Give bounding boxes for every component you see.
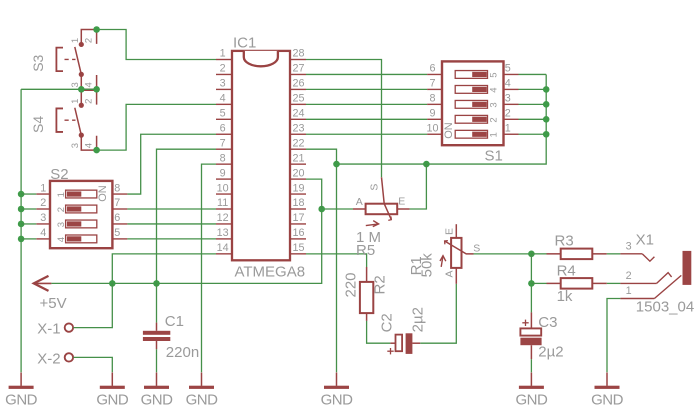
svg-text:1: 1 (40, 182, 46, 194)
S1 pin 8 stub (427, 103, 442, 105)
S2 slider 4 outline (66, 235, 97, 243)
svg-text:2: 2 (626, 270, 632, 282)
capacitor C1 (143, 283, 170, 372)
switch S3 actuator bracket (56, 48, 63, 72)
junction R4 branch (528, 280, 535, 287)
wire left rail to S2 pin 4 (21, 238, 36, 240)
svg-text:GND: GND (141, 392, 174, 409)
svg-text:1: 1 (626, 285, 632, 297)
svg-text:2µ2: 2µ2 (538, 343, 563, 360)
svg-text:ON: ON (97, 185, 109, 202)
svg-text:8: 8 (429, 93, 435, 105)
IC1 pin 11 stub (216, 208, 232, 210)
IC1 pin 1 stub (216, 59, 232, 61)
svg-text:8: 8 (220, 152, 226, 164)
svg-text:S: S (473, 242, 480, 254)
svg-text:R4: R4 (557, 263, 576, 280)
switch S4 actuator bracket (56, 108, 63, 132)
svg-text:220n: 220n (166, 344, 199, 361)
svg-text:21: 21 (292, 152, 304, 164)
svg-text:1: 1 (56, 192, 67, 197)
svg-text:10: 10 (217, 182, 229, 194)
junction GND line at pin22 rail (333, 161, 340, 168)
svg-text:3: 3 (505, 93, 511, 105)
svg-text:2: 2 (220, 63, 226, 75)
IC1 pin 2 stub (216, 73, 232, 75)
svg-text:28: 28 (292, 48, 304, 60)
svg-text:4: 4 (56, 237, 67, 242)
S1 slider 3 filled half (472, 102, 487, 107)
S1 pin 3 stub (504, 103, 519, 105)
IC1 ATMEGA8 body (232, 51, 290, 260)
svg-text:2µ2: 2µ2 (410, 307, 427, 332)
svg-text:22: 22 (292, 137, 304, 149)
junction S1 rail pin 4 (543, 86, 550, 93)
S2 pin 4 stub (36, 238, 50, 240)
svg-text:16: 16 (292, 227, 304, 239)
svg-text:GND: GND (591, 392, 624, 409)
S1 pin 5 stub (504, 73, 519, 75)
switch S4 actuator dashed link (65, 119, 76, 121)
wire X-1 to +5V rail (73, 283, 112, 327)
svg-text:GND: GND (5, 392, 38, 409)
svg-text:19: 19 (292, 182, 304, 194)
svg-text:E: E (443, 228, 455, 235)
svg-text:7: 7 (429, 78, 435, 90)
IC1 pin 4 stub (216, 103, 232, 105)
svg-text:2: 2 (489, 117, 500, 122)
svg-text:S1: S1 (485, 147, 503, 164)
svg-text:S: S (369, 184, 381, 191)
IC1 pin 3 stub (216, 88, 232, 90)
wire S2 pin5 to IC1 pin13 (127, 238, 216, 240)
ground symbol 1 (left rail) (9, 373, 34, 389)
ground symbol 4 (IC1 pin8) (189, 373, 214, 389)
S1 slider 1 filled half (472, 132, 487, 137)
svg-text:4: 4 (83, 82, 94, 87)
junction left rail S2 pin 1 (18, 191, 25, 198)
switch S4 pin3/4 bracket box (81, 136, 96, 150)
svg-text:3: 3 (40, 212, 46, 224)
svg-text:GND: GND (321, 392, 354, 409)
junction +5V rail X-1 (109, 280, 116, 287)
IC1 pin 12 stub (216, 223, 232, 225)
svg-text:23: 23 (292, 122, 304, 134)
S2 pin 1 stub (36, 193, 50, 195)
S1 pin 9 stub (427, 118, 442, 120)
IC1 pin 22 stub (290, 148, 306, 150)
S2 slider 3 filled half (67, 221, 81, 226)
S1 slider 5 filled half (472, 72, 487, 77)
IC1 pin 15 stub (290, 253, 306, 255)
svg-text:17: 17 (292, 212, 304, 224)
S2 pin 2 stub (36, 208, 50, 210)
switch S3 pin 3 contact dot (79, 72, 84, 77)
junction S1 rail pin 2 (543, 116, 550, 123)
wire node down to C3 (530, 254, 532, 313)
svg-text:X1: X1 (636, 231, 654, 248)
switch S3 pin 1 contact dot (79, 42, 84, 47)
svg-text:15: 15 (292, 242, 304, 254)
S1 slider 3 outline (455, 100, 487, 108)
wire IC1 pin28 to R5 wiper (306, 60, 382, 178)
switch S4 lever (75, 108, 82, 135)
svg-text:S2: S2 (50, 166, 68, 183)
svg-text:ATMEGA8: ATMEGA8 (235, 263, 306, 280)
wire C2 to R1 A (420, 284, 456, 343)
svg-text:5: 5 (220, 108, 226, 120)
S2 slider 4 filled half (67, 236, 81, 241)
trimmer R1 body (445, 224, 474, 284)
wire +5V rail (51, 209, 353, 283)
connector X-1 pad (65, 323, 73, 331)
svg-text:C2: C2 (378, 313, 395, 332)
svg-text:4: 4 (220, 93, 226, 105)
R5 adjust arrow (366, 221, 379, 227)
S1 pin 2 stub (504, 118, 519, 120)
connector X-2 pad (65, 353, 73, 361)
svg-text:+5V: +5V (40, 295, 67, 312)
switch S3 pin3/4 bracket box (81, 75, 96, 89)
svg-text:2: 2 (40, 197, 46, 209)
IC1 pin 7 stub (216, 148, 232, 150)
junction S1 rail pin 1 (543, 131, 550, 138)
wire IC1 pin 24 to S1 pin 9 (306, 118, 427, 120)
IC1 pin 20 stub (290, 178, 306, 180)
wire IC1 pin 27 to S1 pin 6 (306, 73, 427, 75)
S1 pin 6 stub (427, 73, 442, 75)
S2 slider 3 outline (66, 220, 97, 228)
S1 pin 10 stub (427, 133, 442, 135)
ground symbol 2 (X-2) (100, 373, 125, 389)
svg-text:IC1: IC1 (233, 35, 256, 52)
svg-text:C3: C3 (538, 314, 557, 331)
svg-text:2: 2 (83, 99, 94, 104)
IC1 pin 23 stub (290, 133, 306, 135)
wire IC1 pin 25 to S1 pin 8 (306, 103, 427, 105)
wire IC1 pin 26 to S1 pin 7 (306, 88, 427, 90)
wire IC1 pin15 to R2 top (306, 254, 367, 267)
IC1 pin 19 stub (290, 193, 306, 195)
ground symbol 6 (C3) (519, 373, 544, 389)
capacitor C2 (390, 333, 420, 354)
junction S1 rail pin 3 (543, 101, 550, 108)
svg-text:4: 4 (505, 78, 511, 90)
S1 pin 4 stub (504, 88, 519, 90)
R1 adjust arrow (440, 256, 446, 267)
svg-text:5: 5 (489, 72, 500, 77)
junction R1 S R3 (528, 251, 535, 258)
switch S4 pin1/2 bracket box (81, 90, 96, 104)
svg-text:1: 1 (70, 99, 81, 104)
svg-text:3: 3 (56, 222, 67, 227)
junction GND line at R5 E branch (423, 161, 430, 168)
wire IC1 pin7 VCC down to +5V rail (157, 149, 217, 283)
trimmer R5 body (353, 177, 410, 220)
IC1 pin 17 stub (290, 223, 306, 225)
svg-text:10: 10 (426, 122, 438, 134)
wire S2 pin7 to IC1 pin11 (127, 208, 216, 210)
svg-text:11: 11 (217, 197, 228, 209)
IC1 pin 28 stub (290, 59, 306, 61)
wire S2 pin8 to IC1 pin6 (127, 134, 216, 194)
S2 slider 1 filled half (67, 191, 81, 196)
svg-text:24: 24 (292, 108, 304, 120)
wire IC1 pin8 down to ground symbol 4 (202, 164, 217, 372)
svg-text:X-1: X-1 (37, 321, 60, 338)
wire X1 pin1 to ground symbol 7 (607, 299, 620, 373)
S1 slider 4 filled half (472, 87, 487, 92)
wire S4 pin4 to IC1 pin4 (97, 104, 216, 150)
svg-text:R3: R3 (555, 233, 574, 250)
S2 pin 8 stub (112, 193, 127, 195)
svg-text:1503_04: 1503_04 (636, 298, 694, 315)
switch S3 pin1/2 bracket box (81, 30, 96, 44)
wire left ground rail (20, 89, 22, 372)
wire S1 pin 4 to right rail (519, 88, 547, 90)
IC1 pin 8 stub (216, 163, 232, 165)
wire IC1 pin 23 to S1 pin 10 (306, 133, 427, 135)
svg-text:14: 14 (217, 242, 229, 254)
svg-text:4: 4 (40, 227, 46, 239)
svg-text:7: 7 (114, 197, 120, 209)
S1 pin 7 stub (427, 88, 442, 90)
svg-text:7: 7 (220, 137, 226, 149)
svg-text:S4: S4 (30, 116, 46, 133)
svg-text:GND: GND (515, 392, 548, 409)
switch S3 actuator dashed link (65, 58, 76, 60)
wire left rail to S2 pin 1 (21, 193, 36, 195)
ground symbol 3 (C1) (144, 373, 169, 389)
S2 slider 2 filled half (67, 206, 81, 211)
svg-text:ON: ON (443, 122, 455, 139)
svg-text:20: 20 (292, 167, 304, 179)
resistor R2 body (360, 267, 373, 321)
IC1 pin 9 stub (216, 178, 232, 180)
wire S1 pin 2 to right rail (519, 118, 547, 120)
C2 plus sign (387, 348, 393, 354)
wire S3 pin2 to IC1 pin1 (97, 30, 216, 60)
svg-text:4: 4 (83, 143, 94, 148)
svg-text:3: 3 (489, 102, 500, 107)
wire X-2 to ground symbol 2 (73, 357, 112, 372)
resistor R3 body (531, 249, 620, 260)
svg-text:4: 4 (489, 87, 500, 92)
wire S1 right ground rail (337, 74, 547, 164)
wire IC1 pin14 to +5V rail (112, 254, 216, 284)
IC1 pin 5 stub (216, 118, 232, 120)
IC1 pin 6 stub (216, 133, 232, 135)
svg-text:3: 3 (70, 143, 81, 148)
S1 slider 4 outline (455, 86, 487, 94)
IC1 pin 13 stub (216, 238, 232, 240)
junction +5V rail R5 A (318, 206, 325, 213)
connector X1 sleeve bar (683, 251, 692, 285)
svg-text:13: 13 (217, 227, 229, 239)
svg-text:X-2: X-2 (37, 350, 60, 367)
S1 pin 1 stub (504, 133, 519, 135)
svg-text:50k: 50k (419, 253, 436, 278)
svg-text:1: 1 (220, 48, 226, 60)
C3 plus sign (522, 320, 528, 326)
switch S3 lever (75, 47, 82, 74)
svg-text:3: 3 (220, 78, 226, 90)
switch S4 pin 3 contact dot (79, 133, 84, 138)
IC1 pin 25 stub (290, 103, 306, 105)
junction left rail S2 pin 3 (18, 221, 25, 228)
wire S1 pin 5 to right rail (519, 73, 547, 75)
wire R2 bottom to C2 (367, 321, 391, 343)
svg-text:1: 1 (489, 132, 500, 137)
IC1 pin 27 stub (290, 73, 306, 75)
S1 slider 1 outline (455, 130, 487, 138)
S2 pin 6 stub (112, 223, 127, 225)
junction +5V rail C1 (153, 280, 160, 287)
+5V supply arrow (34, 276, 49, 291)
svg-text:1: 1 (505, 122, 511, 134)
wire S1 pin 1 to right rail (519, 133, 547, 135)
svg-text:A: A (443, 270, 455, 277)
S2 pin 5 stub (112, 238, 127, 240)
IC1 pin 21 stub (290, 163, 306, 165)
wire GND rail to S3 pins3/4 (21, 88, 97, 90)
svg-text:220: 220 (343, 272, 360, 297)
IC1 pin 16 stub (290, 238, 306, 240)
S1 slider 2 filled half (472, 117, 487, 122)
svg-text:6: 6 (220, 122, 226, 134)
svg-text:1: 1 (70, 38, 81, 43)
IC1 pin 24 stub (290, 118, 306, 120)
svg-text:2: 2 (56, 207, 67, 212)
wire IC1 pin22 to ground symbol 5 (306, 149, 337, 372)
junction at S3 pin3 (78, 86, 85, 93)
IC1 pin 18 stub (290, 208, 306, 210)
svg-text:5: 5 (114, 227, 120, 239)
svg-text:2: 2 (83, 38, 94, 43)
svg-text:9: 9 (220, 167, 226, 179)
svg-text:GND: GND (186, 392, 219, 409)
svg-text:A: A (356, 196, 363, 208)
junction left rail S2 pin 4 (18, 236, 25, 243)
wire IC1 pin20 to +5V junction (306, 179, 322, 209)
wire left rail to S2 pin 3 (21, 223, 36, 225)
svg-text:25: 25 (292, 93, 304, 105)
svg-text:9: 9 (429, 108, 435, 120)
svg-text:6: 6 (429, 63, 435, 75)
IC1 pin 14 stub (216, 253, 232, 255)
S2 slider 1 outline (66, 190, 97, 198)
S2 slider 2 outline (66, 205, 97, 213)
svg-text:12: 12 (217, 212, 229, 224)
wire left rail to S2 pin 2 (21, 208, 36, 210)
S2 pin 3 stub (36, 223, 50, 225)
S1 slider 5 outline (455, 71, 487, 79)
X1 pin 3 contact (620, 254, 654, 261)
wire R1 S to R3/R4 node (474, 253, 532, 255)
junction at S4 pin4 (93, 147, 100, 154)
svg-text:26: 26 (292, 78, 304, 90)
X1 pin 2 contact (620, 273, 671, 284)
svg-text:R5: R5 (356, 242, 375, 259)
S1 slider 2 outline (455, 115, 487, 123)
svg-text:8: 8 (114, 182, 120, 194)
wire S1 pin 3 to right rail (519, 103, 547, 105)
capacitor C3 (520, 312, 541, 372)
IC1 pin 10 stub (216, 193, 232, 195)
junction at S3 pin4 (93, 86, 100, 93)
switch S4 pin 1 contact dot (79, 103, 84, 108)
IC1 pin 26 stub (290, 88, 306, 90)
S2 DIP switch body (50, 181, 112, 248)
svg-text:5: 5 (505, 63, 511, 75)
svg-text:R2: R2 (372, 275, 389, 294)
S1 DIP switch body (442, 61, 504, 145)
resistor R4 body (531, 278, 620, 289)
svg-text:3: 3 (626, 241, 632, 253)
svg-text:E: E (398, 196, 405, 208)
ground symbol 5 (IC1 pin22) (324, 373, 349, 389)
junction left rail S2 pin 2 (18, 206, 25, 213)
svg-text:6: 6 (114, 212, 120, 224)
X1 pin 1 contact (620, 275, 681, 298)
svg-text:18: 18 (292, 197, 304, 209)
wire S2 pin6 to IC1 pin12 (127, 223, 216, 225)
svg-text:2: 2 (505, 108, 511, 120)
svg-text:GND: GND (96, 392, 129, 409)
svg-text:27: 27 (292, 63, 304, 75)
ground symbol 7 (X1 pin1) (595, 373, 620, 389)
junction at S3 pin2 (93, 26, 100, 33)
svg-text:C1: C1 (165, 313, 184, 330)
S2 pin 7 stub (112, 208, 127, 210)
svg-text:1k: 1k (557, 288, 573, 305)
wire R5 E to GND line (410, 164, 427, 209)
svg-text:S3: S3 (30, 54, 46, 71)
